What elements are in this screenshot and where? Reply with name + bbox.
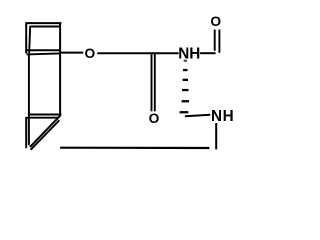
wire: inner left vertical lower part — [28, 55, 30, 145]
svg-text:NH: NH — [178, 46, 200, 63]
wire: formyl C=O up, line 1 — [214, 30, 216, 51]
wire: square left outer edge — [25, 22, 27, 53]
wire: bond NH down — [215, 123, 217, 149]
wire: right vertical edge — [59, 22, 61, 115]
wire: formyl C=O up, line 2 — [218, 30, 220, 53]
wire: triangle left outer edge — [25, 117, 27, 148]
wire: square bottom inner slanted (double bond) — [27, 53, 60, 54]
wire: triangle hypotenuse inner (double bond) — [31, 120, 60, 150]
wire: long bottom bond — [60, 147, 209, 150]
wire: triangle hypotenuse — [30, 115, 61, 147]
wire: C=O double bond down, line 2 — [154, 54, 156, 112]
wire: triangle top inner (double bond) — [26, 117, 58, 119]
hashed wedge stereo bond (6 dashes) — [180, 60, 189, 114]
wire: bond O to carbonyl C and on to NH — [97, 52, 178, 54]
svg-text:O: O — [85, 46, 96, 61]
wire: C=O double bond down, line 1 — [151, 54, 153, 112]
wire: bond wedge vertex to NH (bottom) — [185, 115, 210, 116]
wire: bond NH to formyl C — [200, 52, 216, 54]
svg-text:O: O — [210, 14, 221, 29]
svg-text:NH: NH — [211, 108, 234, 125]
wire: bond cage to O — [60, 52, 83, 54]
wire: square bottom edge — [26, 49, 60, 51]
wire: long inner left vertical — [29, 26, 30, 56]
svg-text:O: O — [149, 111, 160, 126]
wire: square top inner (double bond) — [30, 26, 59, 28]
wire: square top edge — [26, 22, 61, 24]
wire: triangle top edge — [29, 114, 62, 116]
